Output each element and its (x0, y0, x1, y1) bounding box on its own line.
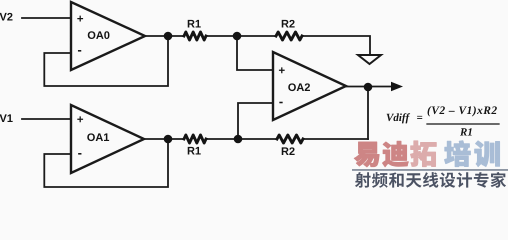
formula Vdiff (387, 113, 410, 123)
wire OA2 output node down to feedback row (367, 87, 369, 139)
node E junction OA2 output (364, 83, 373, 92)
watermark small text shepin he tianxian sheji zhuanjia (355, 172, 506, 188)
label V1 (0, 114, 13, 122)
node A junction OA0 output (164, 32, 173, 41)
formula numerator (V2-V1)xR2 (428, 106, 497, 116)
formula equals (417, 116, 422, 119)
label R1 bottom (188, 147, 201, 155)
watermark big text yidituo peixun (354, 141, 499, 167)
wire node D up to OA2 minus input (238, 103, 273, 138)
wire OA2 output (346, 86, 392, 88)
ground (358, 55, 381, 64)
label R1 top (188, 20, 201, 28)
node B junction R1/R2 top (233, 32, 242, 41)
op-amp OA1 (71, 105, 144, 173)
label R2 bottom (282, 147, 295, 155)
label R2 top (282, 20, 295, 28)
node C junction OA1 output (164, 135, 173, 144)
wire R2 top to ground corner (302, 36, 370, 54)
resistor R1 bottom (184, 135, 206, 143)
wire OA1 output (144, 138, 184, 140)
wire OA0 output (145, 35, 184, 37)
op-amp OA0 (71, 2, 145, 70)
wire node B down to OA2 plus input (237, 37, 273, 70)
output arrow (391, 82, 403, 92)
wire OA1 feedback loop (44, 140, 168, 187)
resistor R2 bottom (277, 135, 303, 143)
op-amp OA2 (273, 52, 346, 120)
formula denominator R1 (460, 128, 472, 135)
wire V1 input (22, 118, 71, 120)
resistor R1 top (184, 32, 206, 40)
watermark underline (352, 169, 508, 171)
label V2 (0, 13, 13, 21)
resistor R2 top (276, 32, 302, 40)
wire R1 top to R2 top (206, 35, 276, 37)
wire R2 bottom to output node riser (303, 138, 368, 140)
wire V2 input (22, 17, 71, 19)
node D junction R1/R2 bottom (234, 135, 243, 144)
formula fraction bar (427, 123, 499, 125)
wire OA0 feedback loop (44, 37, 168, 86)
wire R1 bottom to R2 bottom (206, 138, 277, 140)
